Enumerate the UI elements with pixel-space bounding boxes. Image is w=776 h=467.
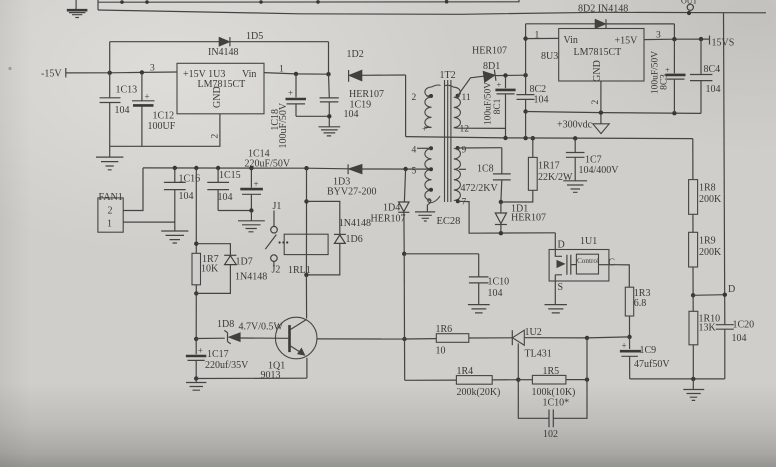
svg-text:J1: J1	[273, 201, 282, 212]
svg-text:4: 4	[412, 146, 417, 156]
svg-text:2: 2	[591, 100, 601, 105]
svg-text:1C9: 1C9	[640, 345, 657, 356]
ground under 1C19	[319, 127, 341, 136]
svg-text:FAN1: FAN1	[99, 192, 123, 203]
wire +300 rail corner down to 1R8	[692, 139, 694, 180]
wire node D to bus	[693, 294, 725, 297]
capacitor 1C15	[207, 168, 240, 211]
wire 1R7 bottom	[195, 285, 197, 294]
diode 1D3	[327, 164, 376, 197]
ground under 1C12	[96, 146, 123, 170]
wire: upper block inner bottom line	[98, 0, 519, 2]
capacitor 1C16	[164, 168, 200, 231]
wire node to 1R17	[501, 190, 533, 202]
svg-text:9013: 9013	[261, 370, 281, 381]
node D left	[691, 293, 695, 297]
svg-text:100UF: 100UF	[148, 121, 176, 132]
wire 1R7 branch vertical	[195, 168, 197, 253]
wire pin7 to drain rail	[458, 201, 556, 233]
capacitor 1C10	[469, 254, 509, 304]
svg-text:8U3: 8U3	[541, 51, 558, 62]
wire FAN pin1	[123, 221, 175, 223]
op-amp U8 regulator LM7815CT box	[541, 29, 644, 82]
svg-text:200k(20K): 200k(20K)	[457, 387, 501, 398]
ground under 1C17	[186, 379, 206, 391]
node tie	[327, 114, 331, 118]
wire bottom-right ground rail	[630, 378, 725, 380]
mosfet U1 with control block	[549, 233, 615, 304]
svg-text:104: 104	[218, 192, 233, 203]
wire emitter rail	[196, 377, 307, 379]
T2 primary upper winding pins 2,+	[412, 85, 441, 135]
node 1D7 bottom	[194, 291, 198, 295]
capacitor 8C1	[483, 75, 515, 128]
svg-text:+15V: +15V	[615, 36, 639, 47]
svg-text:104: 104	[534, 94, 549, 105]
svg-text:+: +	[145, 92, 150, 102]
op-amp U3 regulator LM7815CT box	[177, 63, 264, 114]
net +15VS label	[710, 36, 735, 49]
svg-text:1C7: 1C7	[585, 154, 602, 165]
wire down to 1R4 rail	[404, 339, 406, 380]
node R4/R5/ref	[516, 378, 520, 382]
node D on bus	[723, 293, 727, 297]
node 1R3/1C9	[627, 335, 631, 339]
svg-text:8C3: 8C3	[659, 74, 669, 90]
wire fan rail right of 1D3	[362, 168, 431, 170]
node 1D1 bottom	[499, 231, 503, 235]
capacitor 1C13	[100, 73, 138, 147]
svg-text:1N4148: 1N4148	[235, 271, 267, 282]
wire U3 pin2 bottom rail	[110, 114, 220, 147]
svg-text:LM7815CT: LM7815CT	[574, 47, 622, 58]
ground under 1C16	[161, 231, 188, 243]
svg-text:BYV27-200: BYV27-200	[327, 187, 376, 198]
zener diode 1D8	[196, 319, 288, 344]
svg-text:1C10: 1C10	[488, 277, 510, 288]
resistor 1R10	[689, 295, 720, 345]
wire down to 1D8 node	[195, 293, 197, 339]
node R5 right	[585, 377, 589, 381]
svg-text:1N4148: 1N4148	[339, 218, 371, 229]
wire TL431 out to 1R3 node	[587, 337, 630, 338]
svg-text:1D4: 1D4	[383, 203, 400, 214]
dust speck	[8, 67, 11, 70]
svg-text:100uF/50V: 100uF/50V	[483, 82, 493, 125]
node 1C7 top	[573, 136, 577, 140]
capacitor 8C3	[650, 39, 685, 113]
diode 8D2	[526, 4, 675, 29]
svg-text:13K: 13K	[699, 323, 717, 334]
node 1D8/1C17	[194, 337, 198, 341]
wire +300 rail	[406, 137, 693, 139]
svg-text:104: 104	[732, 333, 747, 344]
node 1C15	[216, 166, 220, 170]
svg-text:-15V: -15V	[41, 69, 62, 80]
svg-text:1C12: 1C12	[153, 111, 175, 122]
wire: upper block left edge	[97, 0, 99, 10]
svg-text:Control: Control	[577, 257, 599, 265]
svg-text:6.8: 6.8	[634, 298, 647, 309]
svg-text:10K: 10K	[201, 264, 219, 275]
svg-text:200K: 200K	[699, 247, 722, 258]
svg-text:100k(10K): 100k(10K)	[532, 387, 576, 398]
wire R5 node up to TL431 out	[586, 338, 588, 380]
svg-text:1D2: 1D2	[347, 49, 364, 60]
svg-text:J2: J2	[272, 265, 281, 276]
svg-text:104: 104	[706, 84, 721, 95]
node pin1 8U3	[523, 36, 527, 40]
wire pin9 to 1C8	[461, 147, 502, 149]
node -15V/1C13	[108, 71, 112, 75]
resistor 1R17	[528, 157, 573, 190]
svg-text:HER107: HER107	[371, 213, 406, 224]
net -15V label	[41, 68, 66, 80]
svg-text:+: +	[622, 341, 627, 351]
svg-text:IN4148: IN4148	[208, 47, 239, 58]
svg-text:1D6: 1D6	[346, 234, 363, 245]
svg-text:2: 2	[412, 93, 417, 103]
wire fan rail	[143, 167, 348, 170]
node 8C4 top	[699, 37, 703, 41]
ground EC28	[415, 205, 460, 227]
svg-text:1R9: 1R9	[699, 235, 716, 246]
svg-text:1R8: 1R8	[699, 183, 716, 194]
svg-text:8D2 IN4148: 8D2 IN4148	[578, 4, 628, 15]
capacitor 1C18	[270, 74, 306, 149]
wire U3 pin1	[264, 73, 329, 75]
svg-text:1T2: 1T2	[440, 70, 456, 81]
svg-text:8C1: 8C1	[493, 98, 503, 114]
node tie	[249, 208, 253, 212]
node 1C16	[173, 166, 177, 170]
svg-text:10: 10	[436, 346, 446, 357]
capacitor 1C8	[461, 148, 511, 202]
svg-text:104: 104	[344, 109, 359, 120]
node 1C17 bottom	[194, 376, 198, 380]
svg-text:1C17: 1C17	[207, 349, 229, 360]
wire: upper block bottom edge	[98, 10, 766, 14]
wire 1R3 bottom	[629, 316, 631, 337]
svg-text:1U2: 1U2	[525, 327, 542, 338]
svg-text:472/2KV: 472/2KV	[461, 183, 499, 194]
svg-text:D: D	[728, 284, 735, 295]
wire 1C15-1C14 tie	[218, 210, 251, 212]
svg-text:5: 5	[412, 167, 417, 177]
svg-text:1U1: 1U1	[580, 236, 597, 247]
node on inner line	[145, 0, 149, 4]
node pin2 8U3	[599, 110, 603, 114]
svg-text:1: 1	[107, 219, 112, 230]
node relay bottom	[304, 273, 308, 277]
wire C pin to 1R3	[609, 265, 629, 288]
wire relay branch vertical	[306, 168, 308, 234]
node 8C1 bottom	[503, 136, 507, 140]
wire 1C20 bottom leg of bus	[724, 329, 726, 379]
resistor 1R7	[192, 253, 219, 284]
svg-text:102: 102	[543, 429, 558, 440]
wire 1D5 left leg	[109, 42, 111, 73]
node 1R10 bottom	[691, 377, 695, 381]
diode 1D2	[347, 49, 406, 82]
capacitor 1C7	[566, 138, 619, 180]
node 8C3 top	[672, 37, 676, 41]
svg-text:1C8: 1C8	[477, 164, 494, 175]
node 8C2 top	[523, 73, 527, 77]
wire mid rail 8C2 to 8C4	[526, 112, 701, 114]
capacitor 1C14	[240, 168, 263, 210]
transistor Q1 9013	[261, 275, 318, 381]
terminal OUT	[681, 0, 698, 15]
wire 1D2 corner down	[405, 75, 407, 137]
ground bottom-right	[683, 379, 704, 401]
svg-text:+: +	[254, 179, 259, 189]
resistor 1R9	[689, 232, 722, 267]
svg-text:HER107: HER107	[511, 212, 546, 223]
svg-text:1: 1	[535, 31, 540, 41]
node on inner line	[259, 0, 263, 4]
node 1R17 top	[531, 136, 535, 140]
svg-text:1D5: 1D5	[246, 31, 263, 42]
T2 secondary lower winding pins 9,7	[454, 146, 467, 208]
wire 1D4 vertical to 1R6 node	[403, 254, 405, 339]
node on inner line	[316, 0, 320, 4]
svg-text:1R17: 1R17	[538, 160, 560, 171]
svg-text:HER107: HER107	[472, 46, 507, 57]
node 1C19	[326, 72, 330, 76]
svg-text:1C20: 1C20	[733, 320, 755, 331]
svg-text:100uF/50V: 100uF/50V	[278, 102, 289, 148]
svg-text:2: 2	[108, 206, 113, 217]
svg-text:GND: GND	[212, 86, 223, 108]
ground under 1C7	[563, 181, 587, 193]
capacitor 1C19	[320, 74, 385, 126]
svg-text:220uf/35V: 220uf/35V	[205, 360, 249, 371]
wire 1R10 bottom	[692, 345, 694, 379]
wire 8D2 right leg	[673, 24, 675, 39]
node 8C1 top	[503, 73, 507, 77]
node 1C8/1R17/1D1	[499, 200, 503, 204]
wire 1C18-1C19 tie	[296, 115, 329, 117]
svg-text:200K: 200K	[699, 194, 722, 205]
svg-text:GND: GND	[592, 60, 603, 82]
node 8C3 bottom	[672, 111, 676, 115]
node 1D6 top branch	[304, 199, 308, 203]
resistor 1R6	[405, 324, 513, 357]
shunt reference U2 TL431	[512, 327, 587, 380]
pin 2 8U3	[591, 81, 601, 113]
node on inner line	[120, 0, 124, 4]
ground under mosfet source	[545, 305, 567, 313]
node 1R7	[194, 166, 198, 170]
svg-text:104/400V: 104/400V	[579, 165, 620, 176]
T2 secondary upper winding pins 11,12	[445, 85, 471, 134]
diode 1D5	[110, 31, 329, 58]
wire 8D2 left leg	[525, 24, 527, 75]
svg-text:+: +	[198, 346, 203, 356]
svg-text:TL431: TL431	[525, 349, 552, 360]
svg-text:+: +	[497, 80, 502, 90]
wire: right vertical bus	[724, 13, 725, 325]
svg-text:1C10*: 1C10*	[543, 398, 570, 409]
ground under 1C10	[468, 305, 490, 313]
wire 1R17 top	[532, 138, 534, 157]
node 1D4 branch	[403, 167, 407, 171]
wire 1D5 right leg	[328, 42, 330, 74]
svg-text:12: 12	[460, 124, 470, 134]
svg-text:1D8: 1D8	[217, 319, 234, 330]
wire pin1 8U3	[526, 37, 559, 39]
svg-text:1C13: 1C13	[116, 85, 138, 96]
relay RL1 coil box	[284, 234, 328, 254]
svg-text:9: 9	[462, 146, 467, 156]
resistor 1R8	[689, 180, 722, 215]
svg-text:EC28: EC28	[437, 216, 461, 227]
wire 1R9 to node D	[692, 267, 694, 295]
node relay branch	[304, 166, 308, 170]
svg-text:Vin: Vin	[564, 35, 578, 46]
svg-text:1C16: 1C16	[179, 174, 201, 185]
svg-text:15VS: 15VS	[712, 37, 735, 48]
svg-text:S: S	[558, 282, 564, 293]
node 1D7 top	[194, 242, 198, 246]
svg-text:47uf50V: 47uf50V	[634, 359, 670, 370]
svg-text:C: C	[608, 257, 615, 268]
node 1C18	[294, 72, 298, 76]
power symbol +300vdc	[557, 113, 609, 134]
diode 1D6	[306, 201, 371, 275]
node 8C2/110V wire	[523, 109, 527, 113]
node 1C12	[140, 70, 144, 74]
svg-text:D: D	[558, 240, 565, 251]
wire 1D4 node to 1C10	[404, 253, 479, 255]
node on inner line	[445, 0, 449, 4]
svg-text:2: 2	[211, 134, 221, 139]
svg-text:104: 104	[115, 105, 130, 116]
svg-text:+: +	[665, 65, 670, 75]
capacitor 1C9	[620, 337, 670, 379]
diode 1D7	[196, 244, 267, 294]
node TL431 out	[585, 336, 589, 340]
capacitor 8C4	[690, 39, 721, 113]
wire pin12 to 8C1	[457, 128, 505, 138]
resistor 1R3	[625, 287, 650, 316]
diode 1D1	[495, 202, 546, 233]
diode 8D1	[458, 46, 526, 96]
connector FAN1	[98, 192, 123, 232]
node 1C14	[249, 166, 253, 170]
svg-text:8C4: 8C4	[704, 64, 721, 75]
svg-text:7: 7	[462, 198, 467, 208]
svg-text:1C15: 1C15	[219, 170, 241, 181]
diode 1D4	[371, 169, 410, 254]
wire base extension to 1D4 vertical	[317, 338, 405, 340]
transformer T2 core	[440, 70, 456, 202]
connector J1 J2	[265, 201, 310, 276]
svg-text:+: +	[422, 125, 427, 135]
svg-text:104: 104	[179, 191, 194, 202]
wire -15V rail	[66, 71, 177, 74]
svg-text:1D7: 1D7	[236, 257, 253, 268]
ground (top-left)	[67, 0, 88, 18]
node 1R6 branch	[402, 337, 406, 341]
ground under 1C14	[238, 211, 265, 232]
svg-text:+300vdc: +300vdc	[557, 120, 593, 131]
svg-text:8D1: 8D1	[483, 61, 500, 72]
svg-text:+: +	[288, 88, 293, 98]
T2 primary lower winding pins 4,5,6	[412, 146, 441, 205]
svg-text:3: 3	[150, 64, 155, 74]
capacitor 1C20	[716, 320, 754, 345]
wire pin3 8U3	[644, 38, 710, 41]
wire 1R8-1R9	[692, 214, 694, 232]
svg-text:11: 11	[462, 93, 471, 103]
resistor 1R4	[405, 366, 519, 398]
capacitor 1C17	[186, 339, 249, 379]
node 1C10 branch	[402, 252, 406, 256]
wire through relay	[305, 234, 307, 275]
wire FAN pin2	[123, 168, 143, 211]
capacitor 1C12	[132, 72, 176, 146]
capacitor 8C2	[517, 75, 549, 138]
node 8C2 bottom	[523, 136, 527, 140]
capacitor 1C10* feedback	[518, 380, 587, 440]
resistor 1R5	[518, 366, 587, 398]
svg-text:104: 104	[488, 288, 503, 299]
